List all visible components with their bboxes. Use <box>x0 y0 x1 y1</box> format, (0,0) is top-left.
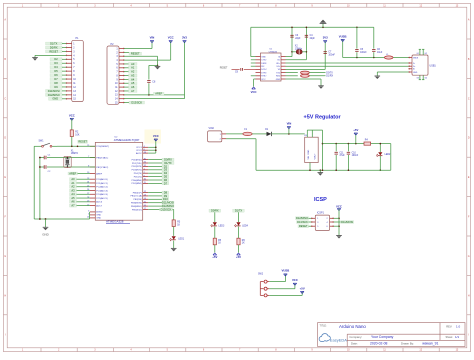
svg-text:LED1: LED1 <box>178 239 184 241</box>
net label A1 (P2 pin 6) <box>124 66 137 70</box>
net label A7 (P2 pin 12) <box>124 89 137 93</box>
resistor R3 <box>172 210 181 227</box>
net label D13/SCK (U2) <box>148 207 174 211</box>
svg-text:A5: A5 <box>131 81 135 85</box>
wire VUSB (SW2) <box>269 274 285 282</box>
svg-text:VCC: VCC <box>336 204 342 208</box>
connector ICSP1 <box>311 212 333 231</box>
svg-text:ADC6: ADC6 <box>96 201 103 204</box>
connector USB1 <box>409 49 437 79</box>
svg-text:LED3: LED3 <box>219 225 225 227</box>
svg-text:G2: G2 <box>425 53 427 55</box>
svg-text:47uF: 47uF <box>339 155 345 157</box>
wire 3V3 (P2 pin14) <box>124 41 185 99</box>
svg-text:D9: D9 <box>54 85 58 89</box>
svg-text:A7: A7 <box>131 89 135 93</box>
svg-text:VCC: VCC <box>153 134 159 138</box>
wire XTAL2 <box>47 166 95 168</box>
svg-text:RESET: RESET <box>299 224 308 228</box>
switch SW1 <box>34 141 57 148</box>
wire AREF (P2 pin13) <box>124 94 185 96</box>
resistor RP1 <box>286 71 326 74</box>
svg-text:D5: D5 <box>164 175 168 179</box>
wire U1 VCC <box>254 79 256 87</box>
svg-text:D4: D4 <box>54 65 58 69</box>
svg-text:C11: C11 <box>339 152 344 154</box>
svg-text:GND: GND <box>96 218 101 220</box>
svg-text:D1/TX: D1/TX <box>164 161 172 165</box>
svg-text:1K: 1K <box>242 243 245 245</box>
net label D13/SCK (ICSP) <box>297 220 312 224</box>
svg-text:A7: A7 <box>71 203 75 207</box>
svg-text:10uF: 10uF <box>377 52 383 54</box>
svg-text:2020-02-08: 2020-02-08 <box>370 342 387 346</box>
svg-text:D4: D4 <box>164 171 168 175</box>
net label A4 (P2 pin 9) <box>124 77 137 81</box>
svg-text:12MHz: 12MHz <box>295 48 303 50</box>
connector P2 <box>107 43 124 105</box>
svg-text:D8: D8 <box>164 190 168 194</box>
net label D12/MISO (U2) <box>148 204 174 208</box>
svg-text:D11/MOSI: D11/MOSI <box>162 201 174 205</box>
svg-text:A5: A5 <box>71 196 75 200</box>
svg-text:VBUS: VBUS <box>413 57 419 59</box>
svg-text:D3: D3 <box>54 61 58 65</box>
power flag VCC (SW2) <box>292 278 298 285</box>
svg-text:+5V Regulator: +5V Regulator <box>304 115 342 121</box>
svg-text:ICSP: ICSP <box>314 197 327 203</box>
svg-text:PC3(ADC3): PC3(ADC3) <box>96 189 108 192</box>
wire RESET rail <box>57 140 95 147</box>
svg-text:C: C <box>4 97 6 100</box>
svg-text:EasyEDA: EasyEDA <box>330 338 347 343</box>
ground (top rail) <box>320 20 327 28</box>
crystal X1 <box>64 150 79 167</box>
power flag VIN <box>150 36 155 43</box>
svg-text:RESET: RESET <box>49 49 58 53</box>
capacitor C6 (VUSB) <box>372 27 383 57</box>
svg-text:AGND: AGND <box>96 211 103 214</box>
net label D3 (P1 pin 6) <box>50 61 66 65</box>
power flag VCC (U2) <box>153 134 159 141</box>
svg-text:PD0(RXD): PD0(RXD) <box>132 159 142 161</box>
net label D1/TX (U2) <box>148 161 174 165</box>
svg-text:CH340G: CH340G <box>269 51 278 53</box>
svg-text:A6: A6 <box>71 200 75 204</box>
svg-text:USB1: USB1 <box>430 64 437 67</box>
svg-text:+5V: +5V <box>236 255 241 259</box>
svg-text:G: G <box>4 255 6 258</box>
svg-text:LED2: LED2 <box>385 154 391 156</box>
svg-text:Your Company: Your Company <box>371 335 394 339</box>
title block <box>318 323 465 347</box>
net label A2 (U2) <box>70 185 91 189</box>
net label D9 (U2) <box>148 194 169 198</box>
svg-text:GND: GND <box>261 56 266 58</box>
svg-text:D7: D7 <box>54 77 58 81</box>
capacitor C10 <box>347 144 359 171</box>
net label D0/TX <box>326 73 333 75</box>
net label D6 (U2) <box>148 178 169 182</box>
resistor RP2 <box>286 74 326 77</box>
wire XTAL1 <box>47 157 95 159</box>
svg-text:VOUT: VOUT <box>315 153 317 160</box>
svg-text:C: C <box>468 97 470 100</box>
net label D1/RX <box>326 76 333 78</box>
svg-text:3V3: 3V3 <box>182 36 187 40</box>
svg-text:Drawn By:: Drawn By: <box>401 341 414 345</box>
LED LED2 <box>376 143 391 171</box>
svg-text:Arduino Nano: Arduino Nano <box>339 324 366 329</box>
net label A7 (U2) <box>70 203 91 207</box>
svg-text:ATMEGA328-TQFP: ATMEGA328-TQFP <box>114 138 140 142</box>
ground (P2 pin3) <box>155 66 161 69</box>
net label D11/MOSI (U2) <box>148 201 174 205</box>
section title ICSP <box>314 197 327 203</box>
svg-text:RESET: RESET <box>78 140 87 144</box>
svg-text:UD-: UD- <box>277 66 281 68</box>
power flag VUSB (SW2) <box>282 268 290 276</box>
svg-text:D8: D8 <box>54 81 58 85</box>
wire P1 pin4 to ground <box>35 55 66 57</box>
svg-text:A0: A0 <box>131 62 135 66</box>
svg-text:SW2: SW2 <box>258 274 264 276</box>
svg-text:VCC: VCC <box>69 113 75 117</box>
svg-text:D10: D10 <box>163 197 168 201</box>
svg-text:D: D <box>4 137 6 140</box>
switch SW2 <box>258 274 269 297</box>
svg-text:H: H <box>468 294 470 297</box>
svg-text:PB4(MISO): PB4(MISO) <box>131 206 142 208</box>
capacitor C1 <box>40 154 51 159</box>
svg-text:A4: A4 <box>131 77 135 81</box>
connector VIN2 <box>208 127 226 142</box>
svg-text:PC4(ADC4): PC4(ADC4) <box>96 193 108 196</box>
svg-text:wawan_91: wawan_91 <box>422 342 438 346</box>
svg-text:VIN GND: VIN GND <box>308 149 310 159</box>
net label RESET (ICSP) <box>298 224 311 228</box>
net label A6 (U2) <box>70 200 91 204</box>
wire +5V (SW2) <box>269 291 302 295</box>
net label D9 (P1 pin 12) <box>50 85 66 89</box>
svg-text:22pF: 22pF <box>295 38 301 40</box>
svg-text:VUSB: VUSB <box>339 34 347 38</box>
power flag +5V (R6) <box>236 245 241 259</box>
capacitor C7 <box>324 52 336 57</box>
svg-text:D6: D6 <box>164 178 168 182</box>
power flag VCC (U1) <box>251 87 257 94</box>
net label D7 (U2) <box>148 181 169 185</box>
net label D10 (U2) <box>148 197 169 201</box>
svg-text:ICSP1: ICSP1 <box>317 212 325 215</box>
svg-text:VCC2: VCC2 <box>136 150 143 152</box>
svg-text:VIN: VIN <box>287 122 292 126</box>
net label GND (P1 pin 15) <box>49 97 67 101</box>
svg-text:VCC: VCC <box>292 278 298 282</box>
wire gnd left vertical <box>34 146 41 219</box>
net label RESET (U1 DTR) <box>220 67 228 69</box>
svg-text:DTR#: DTR# <box>261 72 267 74</box>
svg-text:PD6(AIN0): PD6(AIN0) <box>131 179 142 182</box>
svg-text:PC6(RESET): PC6(RESET) <box>96 146 109 148</box>
svg-text:100nF: 100nF <box>360 52 367 54</box>
net label A1 (U2) <box>70 181 91 185</box>
svg-text:SW1: SW1 <box>39 141 45 143</box>
net label D5 (P1 pin 8) <box>50 69 66 73</box>
svg-text:D13/SCK: D13/SCK <box>131 100 142 104</box>
svg-text:D0/RX: D0/RX <box>211 209 219 213</box>
wire VCC (SW2) <box>269 283 295 289</box>
highlight <box>145 130 162 144</box>
svg-text:1.0: 1.0 <box>456 325 461 329</box>
net label A5 (P2 pin 10) <box>124 81 137 85</box>
net label D3 (U2) <box>148 168 169 172</box>
power flag +5V (SW2) <box>300 286 305 293</box>
net label A5 (U2) <box>70 196 91 200</box>
svg-text:GND: GND <box>52 97 58 101</box>
ground (USB) <box>375 76 381 79</box>
svg-text:PB3(MOSI): PB3(MOSI) <box>131 203 142 205</box>
power flag +5V (reg) <box>353 128 358 144</box>
power flag +5V (R5) <box>212 245 217 259</box>
wire VIN node <box>272 133 305 135</box>
power flag VCC (R2) <box>69 113 75 120</box>
wire VUSB rail <box>343 39 409 58</box>
svg-text:+5V: +5V <box>212 255 217 259</box>
net label D7 (P1 pin 10) <box>50 77 66 81</box>
wire gnd rail (reg) <box>226 139 391 171</box>
svg-text:VCC: VCC <box>251 90 257 94</box>
power flag 3V3 (U1) <box>323 36 328 43</box>
svg-text:1K: 1K <box>177 224 180 226</box>
fuse F1 <box>243 129 252 136</box>
svg-text:D2: D2 <box>54 57 58 61</box>
svg-text:A3: A3 <box>71 188 75 192</box>
svg-text:A1: A1 <box>71 181 75 185</box>
LED LED4 <box>234 212 248 227</box>
net label D4 (P1 pin 7) <box>50 65 66 69</box>
capacitor C8 (AREF) <box>147 65 157 94</box>
crystal X2 <box>292 46 306 55</box>
svg-text:RTS#: RTS# <box>261 76 267 78</box>
svg-text:CTS#: CTS# <box>261 60 267 62</box>
svg-text:GND: GND <box>42 233 48 237</box>
wire P2 pin3 to ground <box>124 56 158 66</box>
svg-text:100nF: 100nF <box>352 155 359 157</box>
net label D13/SCK (P2 pin15) <box>124 100 145 104</box>
svg-text:D0/RX: D0/RX <box>50 45 58 49</box>
svg-text:VCC: VCC <box>261 79 266 81</box>
svg-text:PB0(ICP): PB0(ICP) <box>133 192 142 194</box>
op-amp U1 CH340G <box>251 49 286 82</box>
wire USB D+ <box>286 65 409 67</box>
svg-text:PD7(AIN1): PD7(AIN1) <box>131 182 142 185</box>
resistor R4 <box>364 139 371 145</box>
svg-text:A6: A6 <box>131 85 135 89</box>
svg-text:PD3(INT1): PD3(INT1) <box>132 170 143 172</box>
ferrite bead L1 <box>384 54 393 59</box>
svg-text:D9: D9 <box>164 194 168 198</box>
svg-text:D6: D6 <box>54 73 58 77</box>
net label D12/MISO (ICSP) <box>296 216 312 220</box>
svg-text:PB5(SCK): PB5(SCK) <box>132 209 142 211</box>
logo EasyEDA <box>319 334 347 343</box>
svg-text:Company:: Company: <box>349 335 362 339</box>
svg-text:LED4: LED4 <box>242 225 248 227</box>
regulator U3 AMS1117 <box>304 135 318 163</box>
svg-text:VUSB: VUSB <box>282 268 290 272</box>
svg-text:VIN: VIN <box>150 36 155 40</box>
wire U1 XI <box>286 27 293 56</box>
connector P1 <box>66 37 83 101</box>
svg-text:D0/RX: D0/RX <box>164 158 172 162</box>
power flag VCC (ICSP) <box>336 204 342 210</box>
svg-text:100nF: 100nF <box>328 54 335 56</box>
diode D1 <box>265 129 271 136</box>
wire U1 DTR reset <box>232 68 256 70</box>
wire MCU VCC <box>148 139 157 153</box>
capacitor C9 (auto-reset) <box>235 68 243 74</box>
svg-text:A3: A3 <box>131 73 135 77</box>
net label D2 (U2) <box>148 164 169 168</box>
wire ICSP VCC/GND <box>334 209 340 236</box>
svg-text:G3: G3 <box>417 77 419 79</box>
svg-text:PB2(SS): PB2(SS) <box>133 199 142 201</box>
svg-text:D1/RX: D1/RX <box>326 76 333 78</box>
svg-text:+5V: +5V <box>353 128 358 132</box>
LED LED3 <box>211 212 225 227</box>
wire VIN2 out <box>226 133 243 135</box>
net label D0/RX (led) <box>209 209 221 213</box>
net label A6 (P2 pin 11) <box>124 85 137 89</box>
capacitor C5 (VUSB) <box>355 27 367 57</box>
net label AREF (U2) <box>68 171 90 175</box>
capacitor C3 <box>290 35 301 40</box>
ground (P1 pin4) <box>32 58 38 61</box>
wire U1 GND <box>286 79 322 86</box>
wire U1 XO <box>286 27 308 60</box>
svg-text:D12/MISO: D12/MISO <box>296 216 308 220</box>
wire +5V rail <box>323 143 378 145</box>
svg-text:G4: G4 <box>425 77 427 79</box>
svg-text:G1: G1 <box>417 53 419 55</box>
svg-text:+5V: +5V <box>300 286 305 290</box>
resistor R2 <box>70 118 80 146</box>
svg-text:PC1(ADC1): PC1(ADC1) <box>96 182 108 185</box>
svg-text:D7: D7 <box>164 181 168 185</box>
ground GND (MCU) <box>42 219 48 237</box>
net label A2 (P2 pin 7) <box>124 70 137 74</box>
svg-text:A0: A0 <box>71 177 75 181</box>
svg-text:PD2(INT0): PD2(INT0) <box>132 166 143 168</box>
svg-text:1/1: 1/1 <box>455 335 460 339</box>
power flag 3V3 <box>182 36 187 43</box>
svg-text:TXD: TXD <box>276 72 281 74</box>
svg-text:1K: 1K <box>218 243 221 245</box>
svg-text:D: D <box>468 137 470 140</box>
svg-text:G: G <box>468 255 470 258</box>
transistor U2 ATMEGA328 <box>87 137 148 224</box>
capacitor C4 <box>305 35 316 40</box>
svg-text:PB7(XTAL2): PB7(XTAL2) <box>96 166 108 169</box>
wire U3 top loop <box>307 130 323 170</box>
svg-text:H: H <box>4 294 6 297</box>
svg-text:10K: 10K <box>75 134 80 136</box>
net label A0 (U2) <box>70 177 91 181</box>
svg-text:REV:: REV: <box>446 325 452 329</box>
svg-text:D3: D3 <box>164 168 168 172</box>
wire VIN (P2 pin1) <box>124 41 152 49</box>
svg-text:D11/MOSI: D11/MOSI <box>341 220 353 224</box>
wire VCC (P2 pin4) <box>124 41 171 60</box>
svg-text:A1: A1 <box>131 66 135 70</box>
ground (regulator) <box>318 170 324 175</box>
svg-text:VCC: VCC <box>168 36 174 40</box>
LED LED1 <box>170 227 185 249</box>
svg-text:GND: GND <box>276 79 281 81</box>
net label D4 (U2) <box>148 171 169 175</box>
svg-text:VCC1: VCC1 <box>136 147 143 149</box>
net label D11/MOSI (P1 pin 13) <box>46 89 67 93</box>
svg-text:D1/TX: D1/TX <box>50 41 58 45</box>
svg-text:D2: D2 <box>164 164 168 168</box>
svg-text:RXD: RXD <box>276 76 281 78</box>
net label D8 (U2) <box>148 190 169 194</box>
net label D6 (P1 pin 9) <box>50 73 66 77</box>
section title +5V Regulator <box>304 115 342 121</box>
svg-text:D11/MOSI: D11/MOSI <box>48 89 60 93</box>
net label AREF (P2) <box>154 92 165 96</box>
svg-text:DSR#: DSR# <box>261 63 267 65</box>
power flag VCC (P2) <box>168 36 174 43</box>
svg-text:RESET: RESET <box>220 67 228 69</box>
svg-text:PD1(TXD): PD1(TXD) <box>132 163 142 165</box>
net label A4 (U2) <box>70 192 91 196</box>
svg-text:PB6(XTAL1): PB6(XTAL1) <box>96 156 108 159</box>
power flag VUSB <box>339 34 347 41</box>
svg-text:D5: D5 <box>54 69 58 73</box>
svg-text:ATMEGA328: ATMEGA328 <box>106 220 124 224</box>
net label RESET (P1 pin 3) <box>46 49 67 53</box>
svg-text:Sheet:: Sheet: <box>446 335 454 339</box>
net label A3 (U2) <box>70 188 91 192</box>
svg-text:TITLE:: TITLE: <box>320 324 328 327</box>
svg-text:GND: GND <box>413 72 418 74</box>
net label D1/TX (led) <box>233 209 245 213</box>
svg-text:XO: XO <box>277 60 280 62</box>
svg-text:AVCC: AVCC <box>136 152 142 155</box>
svg-text:PD5(T1): PD5(T1) <box>134 176 142 178</box>
wire ground rail top <box>251 27 374 57</box>
svg-text:PD4(T0): PD4(T0) <box>134 173 142 175</box>
wire F1 to D1 <box>252 133 266 135</box>
net label RESET (P2 pin2) <box>124 51 142 55</box>
svg-text:GND: GND <box>96 215 101 217</box>
svg-text:PC5(ADC5): PC5(ADC5) <box>96 197 108 200</box>
net label D5 (U2) <box>148 175 169 179</box>
resistor R6 <box>237 227 246 245</box>
svg-text:3V3: 3V3 <box>323 36 328 40</box>
net label D12/MISO (P1 pin 14) <box>46 93 67 97</box>
svg-text:22pF: 22pF <box>310 38 316 40</box>
wire U1 V3 to 3V3 <box>286 41 326 70</box>
svg-text:D13/SCK: D13/SCK <box>161 207 172 211</box>
net label D1/TX (P1 pin 1) <box>46 41 67 45</box>
net label A0 (P2 pin 5) <box>124 62 137 66</box>
svg-text:A4: A4 <box>71 192 75 196</box>
net label D2 (P1 pin 5) <box>50 57 66 61</box>
ground (U1) <box>318 86 324 89</box>
